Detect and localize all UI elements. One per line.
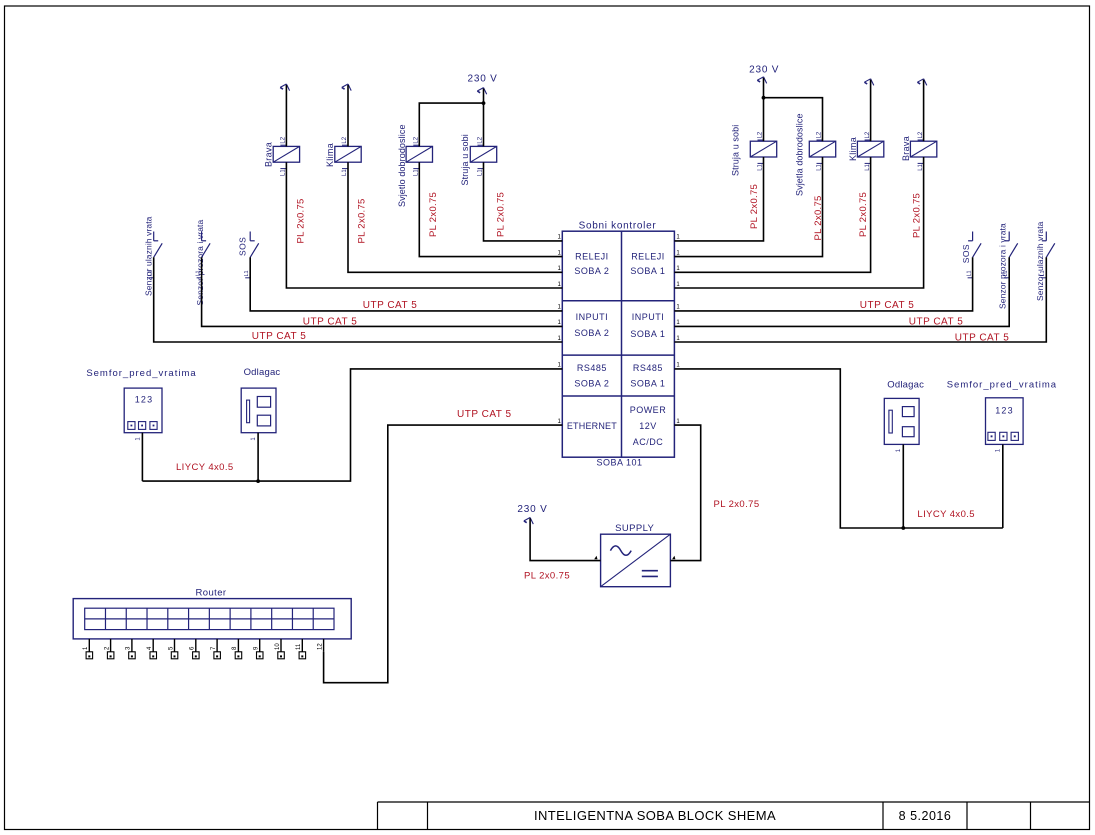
cable label PL 2x0.75 (Klima right) xyxy=(858,192,869,237)
arrow 230V feed Brava (left) xyxy=(280,84,289,91)
svg-text:UTP CAT 5: UTP CAT 5 xyxy=(860,300,915,311)
svg-text:Odlagac: Odlagac xyxy=(244,367,281,378)
svg-text:Brava: Brava xyxy=(264,142,274,167)
svg-text:Router: Router xyxy=(196,588,227,599)
net label 230 V (top left) xyxy=(468,74,498,85)
label Klima (left) xyxy=(325,143,335,167)
wire Klima L1 to RELEJI SOBA 1 pin3 xyxy=(674,157,870,272)
svg-text:LIYCY 4x0.5: LIYCY 4x0.5 xyxy=(176,462,234,473)
cable label PL 2x0.75 (Svjetla right) xyxy=(813,195,824,240)
wire Svjetla L1 to RELEJI SOBA 1 pin2 xyxy=(674,157,822,257)
svg-text:Semfor_pred_vratima: Semfor_pred_vratima xyxy=(947,379,1057,390)
svg-text:AC/DC: AC/DC xyxy=(633,437,664,447)
svg-text:1: 1 xyxy=(557,235,561,241)
label Senzor prozora i vrata (right) xyxy=(998,223,1008,309)
svg-text:RELEJI: RELEJI xyxy=(575,252,609,262)
wire Brava L2 (left) xyxy=(285,85,287,146)
wire LIYCY bus to RS485 SOBA 2 xyxy=(142,369,562,481)
cell RS485 SOBA 2 xyxy=(574,363,609,388)
svg-text:Struja u sobi: Struja u sobi xyxy=(460,134,470,185)
pin mark (supply left) xyxy=(594,556,597,559)
svg-text:6: 6 xyxy=(190,646,196,650)
wire Klima L1 to RELEJI SOBA 2 pin3 xyxy=(348,162,562,272)
wire Struja L2 drop (right) xyxy=(763,98,765,142)
svg-text:1: 1 xyxy=(896,448,902,452)
svg-text:PL 2x0.75: PL 2x0.75 xyxy=(296,198,307,243)
svg-text:SOS: SOS xyxy=(237,237,247,256)
svg-text:1: 1 xyxy=(676,419,680,425)
svg-text:Brava: Brava xyxy=(901,136,911,161)
svg-text:12: 12 xyxy=(317,643,323,650)
svg-text:SOBA 101: SOBA 101 xyxy=(596,458,642,468)
wire Brava L1 to RELEJI SOBA 1 pin4 xyxy=(674,157,923,288)
arrow 230V feed (left) xyxy=(477,88,486,95)
junction node (right LIYCY bus) xyxy=(901,526,905,530)
svg-text:RELEJI: RELEJI xyxy=(631,252,665,262)
svg-text:Sobni kontroler: Sobni kontroler xyxy=(579,221,657,232)
svg-text:230 V: 230 V xyxy=(468,74,498,85)
wire odlagac drop (right) xyxy=(902,444,904,528)
wire Brava L2 (right) xyxy=(923,80,925,142)
cable label PL 2x0.75 (Struja right) xyxy=(749,184,760,229)
svg-text:1: 1 xyxy=(676,363,680,369)
arrow 230V feed Brava (right) xyxy=(917,79,926,86)
svg-text:1: 1 xyxy=(135,437,141,441)
pin number labels 1 on controller block xyxy=(557,235,680,425)
arrow 230V feed (right) xyxy=(757,77,766,84)
svg-text:1: 1 xyxy=(676,305,680,311)
svg-text:9: 9 xyxy=(254,646,260,650)
cell RELEJI SOBA 1 xyxy=(630,252,665,277)
svg-text:UTP CAT 5: UTP CAT 5 xyxy=(252,331,307,342)
cable label PL 2x0.75 (Struja left) xyxy=(495,192,506,237)
label Senzor ulaznih vrata (right) xyxy=(1035,221,1045,301)
svg-text:PL 2x0.75: PL 2x0.75 xyxy=(524,571,570,582)
svg-text:UTP CAT 5: UTP CAT 5 xyxy=(955,332,1010,343)
label Brava (right) xyxy=(901,136,911,161)
svg-text:Senzor ulaznih vrata: Senzor ulaznih vrata xyxy=(143,216,153,296)
wire Brava L1 to RELEJI SOBA 2 pin4 xyxy=(286,162,562,288)
svg-text:PL 2x0.75: PL 2x0.75 xyxy=(357,198,368,243)
svg-text:123: 123 xyxy=(995,405,1014,415)
svg-text:Semfor_pred_vratima: Semfor_pred_vratima xyxy=(86,368,196,379)
arrow 230V feed Klima (left) xyxy=(342,84,351,91)
label Senzor prozora i vrata (left) xyxy=(195,220,205,306)
svg-text:230 V: 230 V xyxy=(517,504,547,515)
relay K8 Brava (right) xyxy=(910,131,936,171)
svg-text:10: 10 xyxy=(275,643,281,650)
svg-text:LIYCY 4x0.5: LIYCY 4x0.5 xyxy=(917,509,975,520)
switch S3 Senzor ulaznih vrata (left) xyxy=(148,232,163,278)
wire 230V to supply input xyxy=(530,518,601,560)
cable label PL 2x0.75 (Brava right) xyxy=(912,193,923,238)
svg-text:SOS: SOS xyxy=(961,244,971,263)
wire Svjetlo L1 to RELEJI SOBA 2 pin2 xyxy=(419,162,562,256)
cable label PL 2x0.75 (Klima left) xyxy=(357,198,368,243)
junction node (left LIYCY bus) xyxy=(256,479,260,483)
cable label PL 2x0.75 (supply input) xyxy=(524,571,570,582)
svg-text:1: 1 xyxy=(676,266,680,272)
label Klima (right) xyxy=(848,137,858,161)
svg-text:SOBA 1: SOBA 1 xyxy=(630,378,665,388)
svg-text:POWER: POWER xyxy=(630,405,667,415)
pin label 1 (left odlagac) xyxy=(251,437,257,441)
label Router xyxy=(196,588,227,599)
label SOS (right) xyxy=(961,244,971,263)
svg-text:Svjetla dobrodoslice: Svjetla dobrodoslice xyxy=(795,113,805,196)
switch S4 SOS (right) xyxy=(966,232,981,278)
label Brava (left) xyxy=(264,142,274,167)
svg-text:INPUTI: INPUTI xyxy=(632,312,665,322)
label Svjetla dobrodoslice (right) xyxy=(795,113,805,196)
wire odlagac drop (left) xyxy=(257,433,259,481)
cable label UTP CAT 5 (left prozora run) xyxy=(303,316,358,327)
svg-text:Svjetlo dobrodoslice: Svjetlo dobrodoslice xyxy=(397,124,407,207)
cell RS485 SOBA 1 xyxy=(630,363,665,388)
cell RELEJI SOBA 2 xyxy=(574,252,609,277)
switch S2 Senzor prozora i vrata (left) xyxy=(195,232,210,278)
wire Klima L2 (left) xyxy=(347,85,349,146)
wire ulaznih to INPUTI SOBA 1 pin3 xyxy=(674,257,1046,342)
cell ETHERNET xyxy=(567,421,617,431)
svg-text:SUPPLY: SUPPLY xyxy=(615,523,654,534)
relay K2 Klima (left) xyxy=(335,136,361,176)
svg-text:UTP CAT 5: UTP CAT 5 xyxy=(363,300,418,311)
title block frame xyxy=(378,802,1090,830)
wire Struja L1 to RELEJI SOBA 1 pin1 xyxy=(674,157,763,241)
svg-text:3: 3 xyxy=(126,646,132,650)
relay K3 Svjetlo dobrodoslice (left) xyxy=(406,136,432,176)
device Router (outline and port grid) xyxy=(73,599,351,639)
net label 230 V (top right) xyxy=(749,65,779,76)
label Struja u sobi (right) xyxy=(731,125,741,176)
svg-text:SOBA 1: SOBA 1 xyxy=(630,266,665,276)
wire bridge Svjetlo L2 (left) xyxy=(419,103,483,146)
svg-text:8 5.2016: 8 5.2016 xyxy=(899,809,952,823)
svg-text:4: 4 xyxy=(147,646,153,650)
svg-text:PL 2x0.75: PL 2x0.75 xyxy=(713,499,759,510)
cell POWER 12V AC/DC xyxy=(630,405,667,447)
svg-text:1: 1 xyxy=(83,646,89,650)
wire prozora to INPUTI SOBA 1 pin2 xyxy=(674,257,1009,326)
svg-text:PL 2x0.75: PL 2x0.75 xyxy=(858,192,869,237)
router pins 1-12 with terminals xyxy=(83,639,324,659)
cable label UTP CAT 5 (left ulaznih run) xyxy=(252,331,307,342)
svg-text:1: 1 xyxy=(676,320,680,326)
arrow 230V feed Klima (right) xyxy=(864,79,873,86)
relay K7 Klima (right) xyxy=(857,131,883,171)
wire semfor drop (left) xyxy=(141,433,143,481)
cable label UTP CAT 5 (ethernet run) xyxy=(457,409,512,420)
label Semfor_pred_vratima (left) xyxy=(86,368,196,379)
svg-text:1: 1 xyxy=(676,250,680,256)
svg-text:123: 123 xyxy=(135,394,154,404)
date 8 5.2016 xyxy=(899,809,952,823)
svg-text:L1: L1 xyxy=(244,270,250,276)
svg-text:230 V: 230 V xyxy=(749,65,779,76)
pin mark (supply right) xyxy=(672,556,675,559)
pin label 1 (right semfor) xyxy=(996,448,1002,452)
label Semfor_pred_vratima (right) xyxy=(947,379,1057,390)
wire Struja L2 drop (left) xyxy=(483,103,485,146)
cable label LIYCY 4x0.5 (left) xyxy=(176,462,234,473)
label SOBA 101 xyxy=(596,458,642,468)
arrow 230V feed (supply) xyxy=(524,518,533,525)
device Semfor_pred_vratima (left) xyxy=(124,388,162,433)
svg-text:PL 2x0.75: PL 2x0.75 xyxy=(912,193,923,238)
cell INPUTI SOBA 1 xyxy=(630,312,665,339)
svg-text:Klima: Klima xyxy=(325,143,335,167)
svg-text:1: 1 xyxy=(557,282,561,288)
svg-text:PL 2x0.75: PL 2x0.75 xyxy=(428,192,439,237)
junction node (left 230V) xyxy=(482,101,486,105)
label SOS (left) xyxy=(237,237,247,256)
device Odlagac (left) xyxy=(241,388,276,433)
svg-text:7: 7 xyxy=(211,646,217,650)
cable label UTP CAT 5 (right SOS run) xyxy=(860,300,915,311)
svg-text:RS485: RS485 xyxy=(633,363,663,373)
svg-text:SOBA 2: SOBA 2 xyxy=(574,328,609,338)
svg-text:2: 2 xyxy=(104,646,110,650)
svg-text:12V: 12V xyxy=(639,421,657,431)
wire bridge Svjetla L2 (right) xyxy=(764,98,823,142)
controller block Sobni kontroler (outline) xyxy=(562,231,674,457)
wire SOS to INPUTI SOBA 1 pin1 xyxy=(674,257,972,311)
svg-text:SOBA 2: SOBA 2 xyxy=(574,266,609,276)
cable label UTP CAT 5 (right prozora run) xyxy=(909,316,964,327)
switch S5 Senzor prozora i vrata (right) xyxy=(1003,232,1018,278)
label Struja u sobi (left) xyxy=(460,134,470,185)
pin label 1 (right odlagac) xyxy=(896,448,902,452)
svg-text:SOBA 2: SOBA 2 xyxy=(574,378,609,388)
label Svjetlo dobrodoslice (left) xyxy=(397,124,407,207)
svg-text:PL 2x0.75: PL 2x0.75 xyxy=(495,192,506,237)
svg-text:8: 8 xyxy=(232,646,238,650)
cable label UTP CAT 5 (right ulaznih run) xyxy=(955,332,1010,343)
wire router port 12 to ETHERNET xyxy=(324,425,563,683)
cable label UTP CAT 5 (left SOS run) xyxy=(363,300,418,311)
svg-text:RS485: RS485 xyxy=(577,363,607,373)
svg-text:Senzor prozora i vrata: Senzor prozora i vrata xyxy=(195,220,205,306)
relay K5 Struja u sobi (right) xyxy=(750,131,776,171)
device Semfor_pred_vratima (right) xyxy=(986,398,1024,445)
svg-text:Senzor ulaznih vrata: Senzor ulaznih vrata xyxy=(1035,221,1045,301)
cable label PL 2x0.75 (Brava left) xyxy=(296,198,307,243)
svg-text:1: 1 xyxy=(557,336,561,342)
power supply U2 SUPPLY (AC/DC converter) xyxy=(601,534,671,587)
svg-text:SOBA 1: SOBA 1 xyxy=(630,329,665,339)
label Senzor ulaznih vrata (left) xyxy=(143,216,153,296)
wire Struja L1 to RELEJI SOBA 2 pin1 xyxy=(484,162,563,241)
label SUPPLY xyxy=(615,523,654,534)
cable label PL 2x0.75 (Svjetlo left) xyxy=(428,192,439,237)
svg-text:Klima: Klima xyxy=(848,137,858,161)
label Sobni kontroler xyxy=(579,221,657,232)
svg-text:1: 1 xyxy=(996,448,1002,452)
svg-text:ETHERNET: ETHERNET xyxy=(567,421,617,431)
svg-text:1: 1 xyxy=(557,320,561,326)
wire SOS to INPUTI SOBA 2 pin1 xyxy=(250,257,562,311)
title text INTELIGENTNA SOBA BLOCK SHEMA xyxy=(534,808,776,823)
wire Klima L2 (right) xyxy=(870,80,872,142)
svg-text:5: 5 xyxy=(168,646,174,650)
svg-text:1: 1 xyxy=(557,363,561,369)
net label 230 V (supply) xyxy=(517,504,547,515)
junction node (right 230V) xyxy=(762,96,766,100)
device Odlagac (right) xyxy=(884,398,919,444)
wire 230V stem to junction (left) xyxy=(483,89,485,104)
svg-text:1: 1 xyxy=(676,282,680,288)
svg-text:1: 1 xyxy=(676,336,680,342)
svg-text:1: 1 xyxy=(557,266,561,272)
wire RS485 SOBA 1 to LIYCY bus (right) xyxy=(674,369,1002,528)
svg-text:Senzor prozora i vrata: Senzor prozora i vrata xyxy=(998,223,1008,309)
wire ulaznih to INPUTI SOBA 2 pin3 xyxy=(154,257,563,342)
pin label 1 (left semfor) xyxy=(135,437,141,441)
relay K6 Svjetla dobrodoslice (right) xyxy=(809,131,835,171)
cable label PL 2x0.75 (supply output) xyxy=(713,499,759,510)
cell INPUTI SOBA 2 xyxy=(574,312,609,338)
svg-text:1: 1 xyxy=(676,235,680,241)
svg-text:UTP CAT 5: UTP CAT 5 xyxy=(457,409,512,420)
svg-text:PL 2x0.75: PL 2x0.75 xyxy=(749,184,760,229)
svg-text:Struja u sobi: Struja u sobi xyxy=(731,125,741,176)
wire supply output to POWER pin xyxy=(670,425,700,560)
wire semfor drop (right) xyxy=(1002,444,1004,528)
svg-text:UTP CAT 5: UTP CAT 5 xyxy=(909,316,964,327)
switch S6 Senzor ulaznih vrata (right) xyxy=(1040,232,1055,278)
svg-text:1: 1 xyxy=(557,250,561,256)
svg-text:INPUTI: INPUTI xyxy=(576,312,609,322)
svg-text:1: 1 xyxy=(557,419,561,425)
label Odlagac (right) xyxy=(887,379,924,390)
svg-text:11: 11 xyxy=(296,643,302,650)
wire 230V stem to junction (right) xyxy=(763,78,765,98)
svg-text:INTELIGENTNA SOBA BLOCK SHEMA: INTELIGENTNA SOBA BLOCK SHEMA xyxy=(534,808,776,823)
svg-text:1: 1 xyxy=(251,437,257,441)
cable label LIYCY 4x0.5 (right) xyxy=(917,509,975,520)
relay K4 Struja u sobi (left) xyxy=(470,136,496,176)
svg-text:Odlagac: Odlagac xyxy=(887,379,924,390)
label Odlagac (left) xyxy=(244,367,281,378)
svg-text:UTP CAT 5: UTP CAT 5 xyxy=(303,316,358,327)
relay K1 Brava (left) xyxy=(273,136,299,176)
svg-text:1: 1 xyxy=(557,305,561,311)
wire prozora to INPUTI SOBA 2 pin2 xyxy=(202,257,563,326)
svg-text:L1: L1 xyxy=(966,270,972,276)
switch S1 SOS (left) xyxy=(244,232,259,278)
